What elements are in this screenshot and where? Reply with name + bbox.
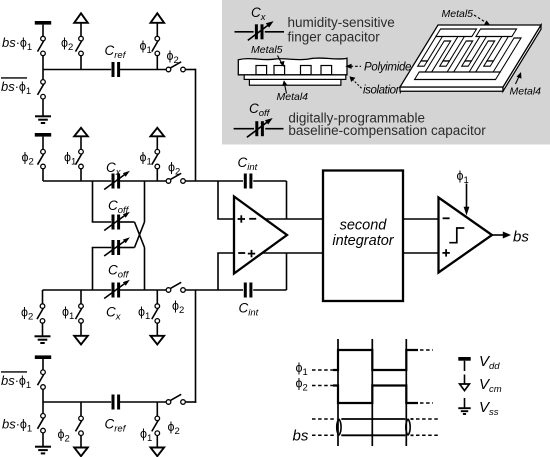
- capacitor Coff (lower): [113, 240, 119, 255]
- wire rail row4: [43, 401, 111, 403]
- switch phi2 (row2 col A): [38, 149, 46, 168]
- wire (switch to rail row1): [42, 56, 44, 70]
- wire: [156, 169, 158, 181]
- switch phi2 (row2 series): [166, 173, 185, 183]
- wire: [156, 56, 158, 70]
- capacitor Cx (row3): [113, 283, 119, 298]
- op-amp U1 (first integrator): [234, 197, 287, 274]
- timing gridline 2: [371, 339, 373, 446]
- capacitor Coff (upper): [113, 215, 119, 230]
- wire (opamp bottom output): [263, 252, 323, 254]
- comparator hysteresis symbol: [449, 228, 464, 243]
- switch phi1 (row4 col C): [156, 402, 158, 416]
- svg-text:isolation: isolation: [363, 85, 402, 97]
- legend panel background: [222, 0, 550, 145]
- capacitor Cref (row1): [113, 62, 119, 77]
- 3D finger capacitor: Metal5 meander: [410, 29, 527, 80]
- capacitor Cint (bottom): [245, 283, 251, 298]
- wire: [80, 56, 82, 70]
- wire (opamp top output): [263, 218, 323, 220]
- Vdd symbol: [458, 357, 470, 371]
- wire (top Cint branch): [218, 180, 243, 182]
- wire (box to comparator top): [403, 218, 439, 220]
- Vcm symbol: [460, 375, 470, 391]
- Vcm supply (row2 col B): [74, 128, 88, 150]
- svg-text:baseline-compensation capacito: baseline-compensation capacitor: [288, 123, 486, 138]
- capacitor Cx legend symbol: [235, 21, 285, 40]
- svg-text:bs: bs: [513, 229, 529, 246]
- Vdd supply (row1 left): [35, 21, 51, 36]
- wire rail row1: [43, 69, 111, 71]
- op-amp input polarity marks: [238, 215, 257, 257]
- svg-text:Polyimide: Polyimide: [364, 62, 411, 74]
- svg-text:integrator: integrator: [332, 233, 394, 249]
- switch phi2 (row4 series): [166, 394, 185, 404]
- wire jog (rail3 to opamp -in): [218, 253, 234, 290]
- phi1 waveform: [312, 369, 333, 371]
- switch phi2 (row4 col B): [80, 402, 82, 416]
- ground (row3): [42, 323, 44, 335]
- switch bsbar.phi1 (row4 upper-left): [38, 370, 46, 389]
- svg-text:finger capacitor: finger capacitor: [288, 30, 381, 45]
- wire: [42, 389, 44, 402]
- second integrator block: [323, 171, 403, 302]
- phi2 waveform: [312, 385, 333, 387]
- timing gridline 3: [405, 339, 407, 446]
- svg-text:Metal5: Metal5: [442, 8, 474, 20]
- wire (bottom Coff branch): [92, 247, 112, 249]
- wire (box to comparator bottom): [403, 252, 439, 254]
- wire (bottom Cint leg to output): [286, 253, 288, 290]
- wire (top Coff branch): [92, 221, 112, 223]
- cross-section: polyimide body: [238, 58, 347, 75]
- wire (right leg to rail3): [144, 248, 146, 291]
- switch phi1 (row3 col C): [156, 290, 158, 304]
- comparator U2: [439, 198, 493, 273]
- wire (left leg top Coff): [92, 181, 94, 222]
- Vcm supply (row4 col B, down): [74, 436, 88, 457]
- Vdd supply (row2 left): [35, 133, 51, 149]
- timing gridline 1: [337, 339, 339, 446]
- Vcm supply (row1, col B): [74, 13, 88, 36]
- cross-section: Metal4 plate: [249, 79, 341, 85]
- wire (left leg bottom Coff): [92, 248, 94, 291]
- clock arrow into comparator: [466, 184, 468, 209]
- Vss symbol: [458, 398, 470, 414]
- cross-section: metal5 finger blocks: [256, 66, 332, 75]
- wire vertical row4 to row3: [195, 290, 197, 403]
- wire crossing diagonals: [135, 222, 145, 248]
- bs transition eye 1: [337, 419, 341, 436]
- Vcm supply (row3 col B, down): [74, 323, 88, 344]
- comparator polarity marks: [442, 218, 449, 256]
- switch bsbar.phi1 (row1 lower-left): [42, 70, 44, 80]
- wire: [42, 169, 44, 181]
- switch phi1 (row2 col C): [152, 149, 160, 168]
- switch bs.phi1 (row1 top-left): [38, 36, 46, 55]
- cross-section: isolation layer: [244, 75, 346, 80]
- svg-text:Metal5: Metal5: [251, 44, 283, 56]
- svg-text:humidity-sensitive: humidity-sensitive: [288, 15, 395, 30]
- bs transition eye 2: [406, 419, 410, 436]
- switch phi2 (row1 series): [166, 62, 185, 72]
- capacitor Coff legend symbol: [234, 118, 284, 137]
- 3D finger capacitor: Metal4 base plate: [400, 25, 541, 91]
- switch phi2 (row3 series): [166, 282, 185, 292]
- wire (row1 to node X1): [185, 69, 195, 71]
- comparator output wire with arrow: [492, 234, 504, 236]
- Vcm supply (row2 col C): [151, 128, 165, 150]
- svg-text:Metal4: Metal4: [277, 91, 309, 103]
- wire vertical row1 to row2: [195, 69, 197, 181]
- switch phi1 (row3 col B): [80, 290, 82, 304]
- switch bs.phi1 (row4 lower-left): [42, 402, 44, 413]
- ground (row1): [42, 99, 44, 116]
- wire (bottom Cint branch): [218, 289, 243, 291]
- wire jog (rail2 to opamp +in): [218, 181, 234, 219]
- wire (top Cint leg to output): [286, 181, 288, 219]
- capacitor Cint (top): [245, 174, 251, 189]
- svg-text:Metal4: Metal4: [510, 86, 542, 98]
- svg-text:second: second: [340, 218, 388, 234]
- wire (row4 to node X2): [185, 401, 196, 403]
- switch phi2 (row1 col B): [76, 36, 84, 55]
- switch phi1 (row1 col C): [152, 36, 160, 55]
- bs waveform lead dashes: [312, 419, 438, 435]
- svg-text:bs: bs: [293, 428, 309, 445]
- wire (row3 switch to opamp jog): [185, 289, 218, 291]
- Vcm supply (row3 col C, down): [151, 323, 165, 344]
- wire rail row3: [43, 289, 112, 291]
- wire (right leg to rail2): [144, 181, 146, 222]
- Vcm supply (row4 col C, down): [151, 436, 165, 457]
- switch phi2 (row3 col A): [42, 290, 44, 304]
- switch phi1 (row2 col B): [76, 149, 84, 168]
- wire (row2 switch to opamp jog): [185, 180, 218, 182]
- capacitor Cref (row4): [113, 395, 119, 410]
- ground (row4): [42, 433, 44, 446]
- wire: [80, 169, 82, 181]
- bs waveform rails: [341, 419, 413, 435]
- Vcm supply (row1, col C): [151, 13, 165, 36]
- wire rail row2: [43, 180, 111, 182]
- Vdd supply (row4 left): [35, 355, 51, 370]
- capacitor Cx (row2): [113, 174, 119, 189]
